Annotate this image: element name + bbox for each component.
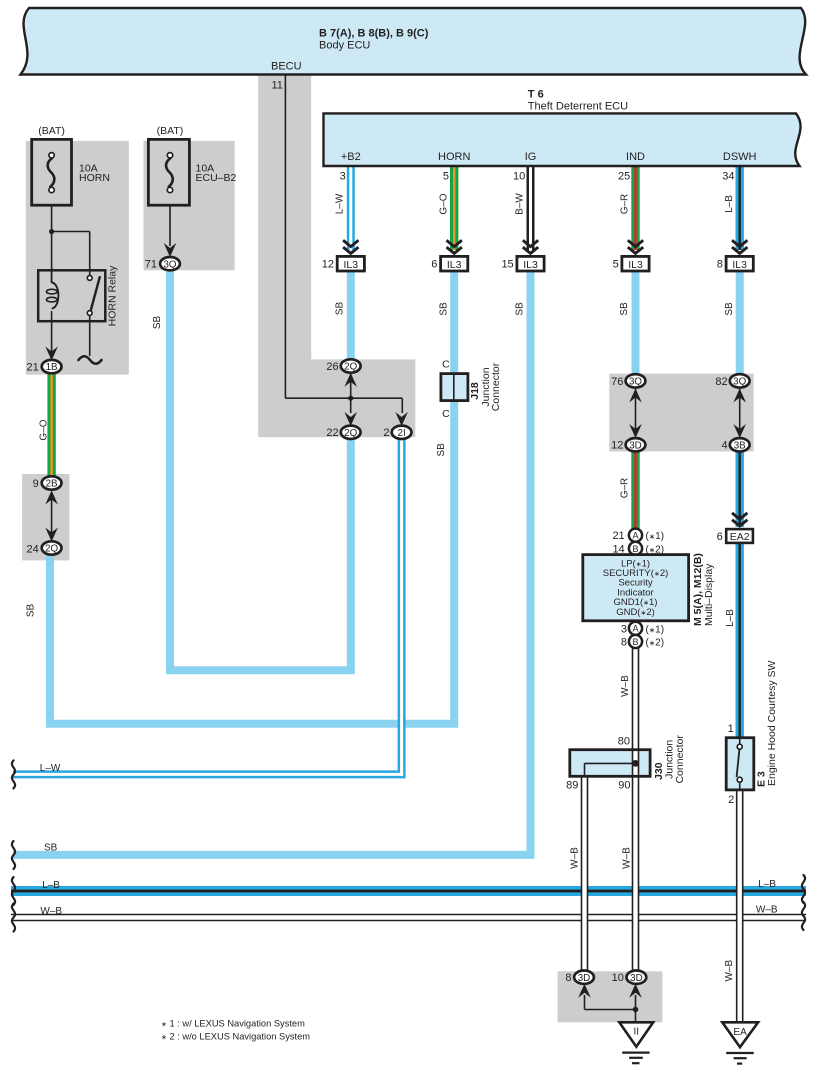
svg-text:6: 6: [431, 259, 437, 271]
label BECU: [271, 61, 302, 73]
wire from HORN fuse to relay: [52, 205, 90, 283]
svg-text:10: 10: [513, 171, 525, 183]
T6 pin number 3: [340, 171, 346, 183]
gray background panel of connectors 3D ground: [558, 971, 663, 1022]
wire L-B from EA2 to engine hood courtesy switch pin1: [736, 543, 744, 738]
svg-text:EA: EA: [733, 1027, 747, 1038]
svg-text:SB: SB: [44, 843, 58, 854]
wire from relay switch toward horn (torn): [89, 316, 91, 356]
svg-text:DSWH: DSWH: [723, 151, 757, 163]
gray background panel of BECU branch: [258, 76, 415, 438]
connector IL3 pin8: [717, 256, 754, 271]
wire from Body ECU pin11 to junction and connector 2I: [285, 74, 402, 413]
junction connector J18: [441, 358, 502, 419]
arrow into connector EA2: [732, 513, 747, 526]
svg-text:SB: SB: [438, 302, 449, 316]
svg-text:G–R: G–R: [620, 194, 631, 215]
footnote w/o navigation: [161, 1032, 310, 1042]
svg-text:12: 12: [322, 259, 334, 271]
connector 2Q pin22: [326, 426, 360, 440]
label SB on ECU-B2 branch: [152, 316, 163, 330]
arrow into IL3 pin5: [628, 240, 643, 253]
svg-text:G–R: G–R: [620, 478, 631, 499]
wire SB from IL3 pin8 to connector 3Q-82: [736, 270, 744, 381]
svg-text:(BAT): (BAT): [157, 125, 184, 137]
T6 pin name DSWH: [723, 151, 757, 163]
wire G-R from connector 3D-12 to circle A: [631, 449, 639, 532]
svg-text:IL3: IL3: [628, 259, 643, 271]
svg-text:+B2: +B2: [341, 151, 361, 163]
junction node on BECU branch: [348, 396, 353, 401]
connector 3Q pin82: [715, 374, 749, 388]
pin 11 label of Body ECU: [272, 80, 283, 92]
Body ECU box B7(A) B8(B) B9(C): [21, 8, 807, 75]
circle connector B pin14: [612, 542, 664, 556]
label W-B below circle B: [620, 675, 631, 697]
arrow into connector 3Q-71: [164, 243, 177, 257]
svg-text:80: 80: [618, 735, 630, 747]
torn left end of W-B bus: [12, 904, 15, 932]
wire SB from IL3 pin15 down to bottom-left torn end: [13, 270, 531, 855]
svg-text:W–B: W–B: [622, 847, 633, 869]
wire G-R from T6 IND pin25 to IL3 arrow: [631, 166, 639, 250]
ground EA: [722, 1022, 758, 1063]
T6 pin name IND: [626, 151, 645, 163]
circle connector A pin3: [621, 622, 664, 636]
svg-text:SB: SB: [26, 604, 37, 618]
wire G-O from relay connector 1B to connector 2B: [47, 370, 55, 480]
arrow into IL3 pin6: [447, 240, 462, 253]
label L-B right on bus: [758, 879, 776, 890]
label SB below IL3-8: [724, 302, 735, 316]
svg-text:II: II: [634, 1027, 640, 1038]
svg-text:3D: 3D: [578, 973, 591, 984]
arrow into connector 3D-10: [629, 984, 642, 998]
label L-B left on bus: [42, 880, 60, 891]
svg-text:IND: IND: [626, 151, 645, 163]
svg-text:W–B: W–B: [40, 906, 62, 917]
connector 2Q pin26: [326, 359, 360, 373]
svg-text:9: 9: [33, 478, 39, 490]
connector 2I pin2: [383, 426, 411, 440]
T6 pin name IG: [525, 151, 537, 163]
wire L-W from T6 +B2 pin3 to IL3 arrow: [347, 166, 355, 250]
label L-B (DSWH wire): [724, 195, 735, 213]
svg-text:5: 5: [443, 171, 449, 183]
svg-text:Connector: Connector: [490, 362, 502, 411]
svg-text:SB: SB: [515, 302, 526, 316]
T6 pin number 5: [443, 171, 449, 183]
svg-text:W–B: W–B: [570, 847, 581, 869]
fuse 10A ECU-B2: [148, 125, 236, 205]
label L-W on horizontal wire: [40, 763, 61, 774]
svg-text:11: 11: [272, 80, 283, 92]
svg-text:BECU: BECU: [271, 61, 302, 73]
svg-text:∗ 1 : w/ LEXUS Navigation Syst: ∗ 1 : w/ LEXUS Navigation System: [161, 1019, 305, 1029]
J30 internal junction node: [632, 760, 639, 767]
label G-O between 1B and 2B: [38, 419, 49, 440]
svg-text:15: 15: [501, 259, 513, 271]
T6 pin number 34: [722, 171, 734, 183]
wire W-B from circle B through J30 pin80/pin90 to connector 3D-10: [632, 646, 640, 972]
svg-text:Theft Deterrent ECU: Theft Deterrent ECU: [528, 101, 628, 113]
svg-text:90: 90: [618, 780, 630, 792]
connector 3D pin8: [565, 971, 594, 985]
arrow into IL3 pin15: [523, 240, 538, 253]
svg-text:34: 34: [722, 171, 734, 183]
T6 pin name HORN: [438, 151, 470, 163]
svg-text:22: 22: [326, 427, 338, 439]
torn right end of W-B bus: [802, 902, 805, 930]
arrow into IL3 pin8: [732, 240, 747, 253]
connector 2Q pin24: [27, 541, 62, 555]
wire G-O from T6 HORN pin5 to IL3 arrow: [450, 166, 458, 250]
svg-text:L–B: L–B: [42, 880, 60, 891]
svg-text:Body ECU: Body ECU: [319, 40, 370, 52]
svg-text:3Q: 3Q: [629, 377, 642, 388]
arrow into connector 2I: [395, 412, 408, 426]
connector EA2 pin6: [717, 529, 753, 543]
wire SB from IL3 pin12 to connector 2Q-26: [347, 270, 355, 362]
svg-text:4: 4: [721, 440, 727, 452]
wire SB from IL3 pin6 through J18 down-left-up to connector 2Q-24: [50, 270, 454, 724]
svg-text:3: 3: [621, 623, 627, 635]
connector IL3 pin15: [501, 256, 544, 271]
label SB below J18: [436, 443, 447, 457]
label SB below 2Q-24: [26, 604, 37, 618]
svg-text:HORN: HORN: [438, 151, 470, 163]
svg-text:IL3: IL3: [343, 259, 358, 271]
connector 3Q pin76: [611, 374, 645, 388]
svg-text:GND(∗2): GND(∗2): [616, 607, 655, 618]
multi-display unit M5(A) M12(B): [583, 553, 715, 626]
wire from ECU-B2 fuse to connector 3Q-71: [169, 205, 171, 246]
svg-text:8: 8: [621, 637, 627, 649]
svg-text:5: 5: [613, 259, 619, 271]
wire B-W from T6 IG pin10 to IL3 arrow: [527, 166, 535, 250]
label SB on horizontal bus: [44, 843, 58, 854]
svg-text:3B: 3B: [734, 440, 746, 451]
wire L-B from connector 3B-4 to EA2 arrow: [736, 449, 744, 527]
label W-B on J30-90 wire: [622, 847, 633, 869]
svg-text:L–B: L–B: [725, 609, 736, 627]
svg-text:1B: 1B: [46, 362, 58, 373]
label W-B left on bus: [40, 906, 62, 917]
arrow into connector 1B: [45, 347, 58, 361]
gray background panel of connectors 3Q/3D/3B: [609, 374, 753, 452]
torn right end of L-B bus: [802, 875, 805, 903]
connector 3Q pin71: [145, 257, 180, 270]
svg-text:SB: SB: [152, 316, 163, 330]
svg-text:SB: SB: [619, 302, 630, 316]
engine hood courtesy switch E3: [726, 660, 778, 806]
svg-text:(∗1): (∗1): [646, 624, 665, 635]
arrow into connector 3D-8: [578, 984, 591, 998]
wire from relay coil to connector 1B: [51, 311, 53, 357]
wire L-B from T6 DSWH pin34 to IL3 arrow: [736, 166, 744, 250]
svg-text:C: C: [442, 358, 450, 370]
connector 3B pin4: [721, 438, 749, 452]
label SB below IL3-15: [515, 302, 526, 316]
T6 pin name +B2: [341, 151, 361, 163]
label SB below IL3-12: [334, 302, 345, 316]
connector 2B pin9: [33, 476, 62, 490]
svg-text:25: 25: [618, 171, 630, 183]
junction connector J30 border: [566, 735, 686, 792]
svg-text:8: 8: [717, 259, 723, 271]
arrow into connector 2Q-26: [344, 373, 357, 387]
torn end of SB bus: [12, 841, 15, 869]
svg-text:W–B: W–B: [756, 904, 778, 915]
svg-text:G–O: G–O: [438, 193, 449, 214]
wire W-B horizontal bus: [11, 914, 806, 922]
svg-text:C: C: [442, 408, 450, 420]
connector 3D pin12: [611, 438, 645, 452]
svg-text:L–W: L–W: [334, 193, 345, 214]
svg-text:2I: 2I: [398, 428, 406, 439]
svg-text:(∗1): (∗1): [646, 531, 665, 542]
svg-text:21: 21: [27, 362, 39, 374]
svg-text:∗ 2 : w/o LEXUS Navigation Sys: ∗ 2 : w/o LEXUS Navigation System: [161, 1032, 310, 1042]
svg-text:HORN Relay: HORN Relay: [106, 265, 118, 326]
T6 pin number 25: [618, 171, 630, 183]
torn left end of L-B bus: [12, 877, 15, 905]
svg-text:IL3: IL3: [732, 259, 747, 271]
svg-text:6: 6: [717, 531, 723, 543]
svg-text:2Q: 2Q: [45, 544, 58, 555]
J30 internal bus wire: [585, 763, 636, 776]
junction connector J30 fill: [570, 750, 650, 777]
svg-text:1: 1: [728, 723, 734, 735]
svg-text:T 6: T 6: [528, 89, 544, 101]
svg-text:IG: IG: [525, 151, 537, 163]
svg-text:2Q: 2Q: [344, 362, 357, 373]
fuse 10A HORN: [32, 125, 110, 205]
svg-text:2B: 2B: [46, 479, 58, 490]
svg-text:B: B: [632, 637, 638, 647]
connector 3D pin10: [612, 971, 647, 985]
wire SB from IL3 pin5 to connector 3Q-76: [632, 270, 640, 381]
label SB below IL3-5: [619, 302, 630, 316]
svg-text:2: 2: [728, 794, 734, 806]
label B-W (IG wire): [515, 193, 526, 215]
svg-text:B 7(A), B 8(B), B 9(C): B 7(A), B 8(B), B 9(C): [319, 28, 429, 40]
gray background panel of HORN fuse and relay: [26, 141, 129, 375]
gray background panel of connectors 2B/2Q: [22, 474, 69, 560]
svg-text:SB: SB: [724, 302, 735, 316]
torn squiggle on horn wire: [79, 356, 102, 364]
connector pair arrow between 2B and 2Q-24: [45, 491, 58, 542]
svg-text:3Q: 3Q: [163, 259, 176, 270]
arrow into IL3 pin12: [343, 240, 358, 253]
svg-text:SB: SB: [334, 302, 345, 316]
svg-text:B–W: B–W: [515, 193, 526, 215]
svg-text:A: A: [632, 531, 638, 541]
svg-text:Multi–Display: Multi–Display: [703, 563, 715, 626]
wire L-W from connector 2I down-left to torn end: [13, 438, 402, 774]
svg-text:12: 12: [611, 440, 623, 452]
svg-text:82: 82: [715, 376, 727, 388]
wire L-B horizontal bus: [11, 886, 806, 896]
svg-text:SB: SB: [436, 443, 447, 457]
svg-text:21: 21: [612, 530, 624, 542]
svg-text:71: 71: [145, 258, 157, 270]
svg-text:Connector: Connector: [674, 735, 686, 784]
HORN relay box: [38, 265, 118, 326]
svg-text:W–B: W–B: [724, 960, 735, 982]
svg-text:10: 10: [612, 972, 624, 984]
svg-text:B: B: [632, 544, 638, 554]
junction node below HORN fuse: [49, 229, 54, 234]
Theft Deterrent ECU box T6: [324, 89, 801, 167]
svg-text:76: 76: [611, 376, 623, 388]
svg-text:L–W: L–W: [40, 763, 61, 774]
svg-text:3D: 3D: [629, 440, 642, 451]
svg-text:G–O: G–O: [38, 419, 49, 440]
label SB below IL3-6: [438, 302, 449, 316]
connector IL3 pin12: [322, 256, 365, 271]
connector pair arrow between 3Q-76 and 3D-12: [629, 389, 642, 439]
svg-text:EA2: EA2: [730, 531, 750, 543]
connector 1B pin21: [27, 360, 62, 374]
svg-text:ECU–B2: ECU–B2: [196, 172, 237, 184]
connector IL3 pin5: [613, 256, 650, 271]
circle connector A pin21: [612, 529, 664, 543]
svg-text:3Q: 3Q: [733, 377, 746, 388]
arrow into connector 2Q-22: [344, 412, 357, 426]
svg-text:HORN: HORN: [79, 172, 110, 184]
label G-R (IND wire): [620, 194, 631, 215]
connector IL3 pin6: [431, 256, 468, 271]
torn end of L-W wire: [12, 760, 15, 788]
svg-text:L–B: L–B: [758, 879, 776, 890]
label G-R above circle A: [620, 478, 631, 499]
wire SB from connector 3Q-71 down-right-up to connector 2Q-22: [170, 271, 351, 670]
footnote w/ navigation: [161, 1019, 305, 1029]
wire W-B from engine hood courtesy switch pin2 to ground EA: [736, 789, 744, 1022]
svg-text:IL3: IL3: [523, 259, 538, 271]
svg-text:24: 24: [27, 543, 39, 555]
svg-text:3: 3: [340, 171, 346, 183]
svg-text:W–B: W–B: [620, 675, 631, 697]
svg-text:2: 2: [383, 427, 389, 439]
ground II: [619, 1022, 653, 1063]
svg-text:(∗2): (∗2): [646, 638, 665, 649]
junction node above ground II: [633, 1007, 639, 1013]
connector pair arrow between 3Q-82 and 3B-4: [733, 389, 746, 439]
wire W-B from J30 pin89 to connector 3D-8: [581, 776, 589, 972]
svg-text:3D: 3D: [630, 973, 643, 984]
svg-text:89: 89: [566, 780, 578, 792]
gray background panel of ECU-B2 fuse: [144, 141, 235, 270]
svg-text:26: 26: [326, 361, 338, 373]
svg-text:A: A: [632, 624, 638, 634]
svg-text:Engine Hood Courtesy SW: Engine Hood Courtesy SW: [766, 660, 778, 786]
svg-text:2Q: 2Q: [344, 428, 357, 439]
ground wire joining 3D-8 and 3D-10 to ground II: [585, 995, 636, 1022]
label W-B right on bus: [756, 904, 778, 915]
label W-B above ground EA: [724, 960, 735, 982]
svg-text:IL3: IL3: [447, 259, 462, 271]
label L-B above hood switch: [725, 609, 736, 627]
label G-O (HORN wire): [438, 193, 449, 214]
svg-text:8: 8: [565, 972, 571, 984]
circle connector B pin8: [621, 635, 664, 649]
label L-W (+B2 wire): [334, 193, 345, 214]
T6 pin number 10: [513, 171, 525, 183]
label W-B on J30-89 wire: [570, 847, 581, 869]
svg-text:L–B: L–B: [724, 195, 735, 213]
svg-text:(BAT): (BAT): [38, 125, 65, 137]
